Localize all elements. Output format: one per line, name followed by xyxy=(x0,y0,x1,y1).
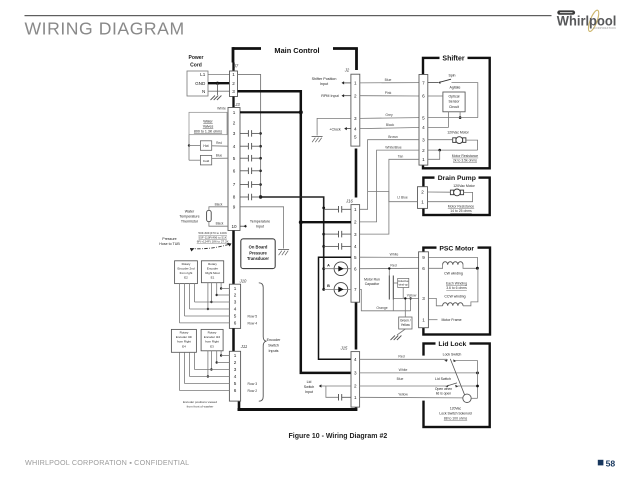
wire Red J16 pin6 to PSC pin6 xyxy=(360,267,419,269)
wire water valve common xyxy=(188,135,190,161)
svg-text:6: 6 xyxy=(354,266,357,271)
temperature input arrow at J3 pin10 xyxy=(240,225,247,227)
svg-text:Water: Water xyxy=(203,120,213,124)
svg-text:Valves: Valves xyxy=(203,125,214,129)
main control right edge segment below J2 xyxy=(355,149,358,198)
wire Tan shifter pin1 corner to J16 pin3 xyxy=(360,159,419,234)
water valves box xyxy=(189,112,227,134)
svg-text:Input: Input xyxy=(320,82,328,86)
wire Cold to J3 pin5, label Blue xyxy=(212,157,228,159)
svg-text:CCW winding: CCW winding xyxy=(444,295,465,299)
svg-text:5: 5 xyxy=(422,115,425,120)
wire shifter pin6 to optical sensor xyxy=(428,95,443,97)
junction blue/solenoid rail xyxy=(476,385,479,388)
wire L1 feed (pin8 row) to J16 cap bus xyxy=(261,197,324,289)
wire Yellow J15 pin1 to solenoid xyxy=(360,396,464,399)
svg-text:1: 1 xyxy=(232,72,235,77)
svg-text:7: 7 xyxy=(233,182,236,187)
wire switch common to sensor rail xyxy=(452,83,478,118)
svg-text:Switch: Switch xyxy=(304,385,315,389)
svg-text:from right: from right xyxy=(180,271,193,275)
svg-text:Motor Run: Motor Run xyxy=(364,278,380,282)
svg-text:Motor Resistance: Motor Resistance xyxy=(452,154,478,158)
svg-text:J11: J11 xyxy=(240,344,247,349)
junction cap bus J16 pin3 xyxy=(322,233,325,236)
psc motor outer box xyxy=(423,248,490,335)
wire motor loop to pin1 xyxy=(428,192,473,201)
svg-text:Each Winding: Each Winding xyxy=(446,282,467,286)
svg-text:1: 1 xyxy=(354,81,357,86)
wire L1 to J7 pin1 xyxy=(208,73,230,75)
svg-text:WIRING DIAGRAM: WIRING DIAGRAM xyxy=(25,18,185,38)
wire shifter pin5 row xyxy=(428,117,478,119)
svg-text:Cold: Cold xyxy=(203,159,210,163)
svg-text:White: White xyxy=(217,107,226,111)
svg-text:Blue: Blue xyxy=(216,153,223,157)
wire thick stub from main control top to J7 xyxy=(232,63,234,72)
wire capacitor to orange run xyxy=(392,300,394,311)
rfi capacitor at J3 pin5 xyxy=(240,157,248,159)
svg-text:Input: Input xyxy=(256,224,264,228)
svg-text:E2: E2 xyxy=(184,276,188,280)
svg-text:4: 4 xyxy=(234,374,237,379)
wire green/yellow to ground xyxy=(397,329,405,335)
rotary encoder E3 box xyxy=(201,329,223,350)
svg-text:2k to 3.5k ohms: 2k to 3.5k ohms xyxy=(453,158,477,162)
wires encoder E1 to J10 rows 1-4 xyxy=(220,283,222,289)
junction cap bus J16 pin4 xyxy=(322,245,325,248)
svg-text:58: 58 xyxy=(606,458,616,468)
svg-text:Motor Frame: Motor Frame xyxy=(441,318,461,322)
valve Hot box xyxy=(200,141,211,151)
optical sensor stub to pin5 wire xyxy=(459,112,461,118)
svg-text:Figure 10 - Wiring Diagram #2: Figure 10 - Wiring Diagram #2 xyxy=(289,433,388,440)
connector J11 xyxy=(229,351,240,401)
svg-text:Lock Switch: Lock Switch xyxy=(443,352,462,356)
rfi capacitor at J16 pin4 xyxy=(324,245,339,247)
svg-text:6F(+124F) 186 to 27.2K: 6F(+124F) 186 to 27.2K xyxy=(197,240,229,244)
wire thick stub J3 to J10 xyxy=(232,231,235,285)
svg-text:A: A xyxy=(327,263,330,267)
svg-text:3: 3 xyxy=(422,137,425,142)
svg-text:Red: Red xyxy=(216,141,222,145)
svg-text:Rotary: Rotary xyxy=(208,331,217,335)
rotary encoder E2 box xyxy=(175,261,198,284)
main control bottom-left corner stub to J11 xyxy=(238,401,241,411)
lid lock outer box xyxy=(424,344,490,428)
svg-text:CW winding: CW winding xyxy=(444,272,463,276)
svg-text:Sensor: Sensor xyxy=(448,100,460,104)
svg-text:1: 1 xyxy=(421,199,424,204)
wire inductive box to capacitor xyxy=(393,282,397,284)
svg-text:800 to 1.3K ohms: 800 to 1.3K ohms xyxy=(194,130,222,134)
chassis ground below green/yellow xyxy=(391,336,396,341)
svg-text:9: 9 xyxy=(233,205,236,210)
svg-text:Row 3: Row 3 xyxy=(248,382,258,386)
svg-text:4: 4 xyxy=(354,357,357,362)
svg-text:Pressure: Pressure xyxy=(249,250,267,255)
wire thick trunk to J16 pin2 xyxy=(301,221,351,223)
svg-text:Power: Power xyxy=(188,55,203,61)
svg-text:4: 4 xyxy=(234,307,237,312)
svg-text:120Vac Motor: 120Vac Motor xyxy=(453,184,475,188)
wire Blue J15 pin2 to lid switch xyxy=(360,385,446,387)
pressure hose dash-dot leader xyxy=(190,244,232,249)
wire J2 pin4 Black to shifter pin4 xyxy=(360,128,419,129)
svg-text:3: 3 xyxy=(422,296,425,301)
power cord box xyxy=(187,71,208,96)
svg-text:Encoder 4th: Encoder 4th xyxy=(176,335,193,339)
psc connector xyxy=(419,252,429,328)
wires encoder E4 to J11 rows 3-6 xyxy=(194,352,196,369)
svg-text:7: 7 xyxy=(422,80,425,85)
svg-text:J7: J7 xyxy=(233,64,239,69)
lock solenoid xyxy=(463,394,471,402)
speed sensor A xyxy=(334,262,348,276)
wire White J16 pin5 to PSC pin9 xyxy=(360,256,419,258)
junction white/solenoid rail xyxy=(476,372,479,375)
wire motor to pin2 row xyxy=(466,140,478,150)
svg-text:14 to 25 ohms: 14 to 25 ohms xyxy=(450,209,472,213)
encoder switch inputs brace xyxy=(259,283,267,401)
svg-text:5: 5 xyxy=(354,255,357,260)
wire lock switch to solenoid rail xyxy=(456,361,478,399)
connector J10 xyxy=(229,284,240,328)
svg-text:J10: J10 xyxy=(239,279,247,284)
svg-text:PSC Motor: PSC Motor xyxy=(439,245,474,252)
wire J7 pin1 (L1 bus) right and down xyxy=(238,74,261,197)
svg-text:2: 2 xyxy=(354,220,357,225)
svg-text:6: 6 xyxy=(422,94,425,99)
svg-text:White: White xyxy=(399,368,408,372)
svg-text:Cord: Cord xyxy=(190,62,202,68)
svg-text:J16: J16 xyxy=(345,198,353,203)
wire common to Cold valve xyxy=(189,159,200,161)
wire J2 pin3 Grey to shifter pin5 xyxy=(360,117,419,120)
drain pump outer box xyxy=(423,178,489,215)
svg-text:wind-up: wind-up xyxy=(399,283,409,287)
speed sensor B xyxy=(334,283,348,297)
svg-text:4: 4 xyxy=(354,244,357,249)
shifter outer box xyxy=(423,58,490,168)
spin/agitate selector switch xyxy=(428,82,438,84)
shifter 120Vac motor symbol xyxy=(456,137,463,144)
svg-text:6: 6 xyxy=(422,266,425,271)
svg-text:Blue: Blue xyxy=(397,377,404,381)
lid lock left edge wire gap xyxy=(421,356,426,401)
wire psc pin1 motor frame xyxy=(428,319,437,321)
svg-text:Encoder 2nd: Encoder 2nd xyxy=(177,267,194,271)
wire White J15 pin3 to solenoid rail xyxy=(360,372,478,374)
svg-text:3: 3 xyxy=(234,300,237,305)
wire J7 pin3 neutral trunk (thick) to J15 pin3 xyxy=(238,91,352,373)
rotary encoder E1 box xyxy=(201,261,223,283)
svg-text:Capacitor: Capacitor xyxy=(365,282,380,286)
wire J16 pin5 to J15 pin4 xyxy=(319,257,352,359)
wire Red J15 pin4 to lock switch xyxy=(360,358,447,360)
svg-text:2: 2 xyxy=(422,148,425,153)
main control top-left corner bracket xyxy=(233,47,261,50)
svg-text:6: 6 xyxy=(234,321,237,326)
wire thermistor to J3 pin9, label Black xyxy=(209,207,228,211)
rfi capacitor at J16 pin1 xyxy=(324,208,339,210)
svg-text:from front of washer: from front of washer xyxy=(187,405,214,409)
wire common to Hot valve xyxy=(189,145,200,147)
main control right edge segment below J16 xyxy=(355,302,358,349)
Whirlpool logo gold swoosh xyxy=(586,9,600,33)
svg-text:5: 5 xyxy=(234,381,237,386)
shield ground symbol xyxy=(278,249,289,251)
svg-text:2: 2 xyxy=(421,190,424,195)
optical sensor stub to pin4 wire xyxy=(447,112,449,128)
wire pin2 to pin1 tie xyxy=(428,150,440,159)
svg-text:Inductive: Inductive xyxy=(398,279,409,283)
svg-text:Brown: Brown xyxy=(388,135,398,139)
svg-text:2: 2 xyxy=(234,360,237,365)
svg-text:1: 1 xyxy=(233,110,236,115)
top rule line xyxy=(25,15,552,16)
svg-text:1: 1 xyxy=(422,157,425,162)
svg-text:Rotary: Rotary xyxy=(182,262,191,266)
svg-text:Rotary: Rotary xyxy=(180,331,189,335)
svg-text:J2: J2 xyxy=(344,68,350,73)
svg-text:Yellow: Yellow xyxy=(401,323,411,327)
svg-text:+Clock: +Clock xyxy=(329,128,341,132)
svg-text:1: 1 xyxy=(234,286,237,291)
rotary encoder E4 box xyxy=(171,329,196,352)
svg-text:Row 2: Row 2 xyxy=(248,389,258,393)
svg-text:RPM Input: RPM Input xyxy=(321,94,338,98)
junction on GND wire xyxy=(216,82,219,85)
svg-text:10: 10 xyxy=(231,224,237,229)
svg-text:Main Control: Main Control xyxy=(274,46,319,55)
ccw winding xyxy=(428,298,442,305)
svg-text:Lid Switch: Lid Switch xyxy=(435,377,451,381)
wire yellow node to green/yellow box xyxy=(404,298,406,317)
svg-text:from Right: from Right xyxy=(205,340,219,344)
wire J2 pin2 Pink to shifter pin6 xyxy=(360,95,419,97)
svg-text:Hose to TUB: Hose to TUB xyxy=(159,242,180,246)
svg-text:lid is open: lid is open xyxy=(436,392,451,396)
green/yellow box xyxy=(399,317,412,329)
L1 bus junction dots at J3 rows xyxy=(259,132,262,135)
lock switch arm / solenoid actuator link xyxy=(450,359,464,395)
svg-text:8: 8 xyxy=(233,195,236,200)
svg-text:Agitate: Agitate xyxy=(450,85,461,89)
svg-text:N: N xyxy=(202,89,205,94)
svg-text:Lid Lock: Lid Lock xyxy=(438,341,466,348)
wire N to J7 pin3 xyxy=(208,90,230,92)
motor run capacitor plates xyxy=(388,276,390,300)
svg-text:2: 2 xyxy=(233,121,236,126)
wire shifter pin4 to optical stub xyxy=(428,127,449,129)
svg-text:Switch: Switch xyxy=(268,344,279,348)
svg-text:Lid: Lid xyxy=(307,380,312,384)
svg-text:Hot: Hot xyxy=(203,144,208,148)
svg-text:Row 4: Row 4 xyxy=(248,322,258,326)
svg-text:Water: Water xyxy=(185,210,195,214)
svg-text:Encoder: Encoder xyxy=(207,267,218,271)
svg-text:Encoder positions viewed: Encoder positions viewed xyxy=(183,400,217,404)
svg-text:9: 9 xyxy=(422,255,425,260)
svg-text:Pressure: Pressure xyxy=(162,237,176,241)
svg-text:E1: E1 xyxy=(211,276,215,280)
lid switch xyxy=(445,385,449,388)
wire White/Blue shifter pin2 corner to J16 pin2 xyxy=(360,150,419,222)
wire shifter pin3 to motor xyxy=(428,139,453,141)
wire thermistor to J3 pin10, label Black xyxy=(209,222,228,227)
svg-text:2: 2 xyxy=(234,293,237,298)
svg-text:7: 7 xyxy=(354,287,357,292)
cw winding xyxy=(428,265,442,269)
main control top-right corner bracket xyxy=(333,47,358,50)
optical sensor circuit box xyxy=(443,92,465,112)
svg-text:Drain Pump: Drain Pump xyxy=(438,175,476,182)
svg-text:Black: Black xyxy=(215,202,223,206)
wire J2 pin1 Blue to shifter pin7 xyxy=(360,82,419,84)
wires encoder E2 to J10 rows 3-6 xyxy=(194,284,196,302)
svg-text:4: 4 xyxy=(422,125,425,130)
svg-text:120Vac: 120Vac xyxy=(450,406,462,410)
svg-text:Yellow: Yellow xyxy=(407,294,417,298)
svg-text:On Board: On Board xyxy=(249,245,268,250)
drain pump motor symbol xyxy=(454,189,461,196)
svg-text:Optical: Optical xyxy=(449,94,460,98)
wire GND to J7 pin2 (thick) xyxy=(208,82,230,84)
svg-text:6: 6 xyxy=(234,388,237,393)
svg-text:Temperature: Temperature xyxy=(179,215,199,219)
main control bottom edge xyxy=(238,408,358,411)
svg-text:Temperature: Temperature xyxy=(250,220,270,224)
inductive windup box xyxy=(398,278,409,287)
on board pressure transducer box xyxy=(241,239,275,269)
svg-text:Green /: Green / xyxy=(400,319,411,323)
svg-text:Pink: Pink xyxy=(385,91,392,95)
svg-text:4: 4 xyxy=(233,144,236,149)
svg-text:Lock Switch Solenoid: Lock Switch Solenoid xyxy=(439,411,471,415)
svg-text:E3: E3 xyxy=(210,344,214,348)
wire J2 pin3 to ground xyxy=(317,118,351,135)
wire Lt Blue drain pump pin1 to Brown node xyxy=(368,192,418,202)
svg-text:6: 6 xyxy=(233,169,236,174)
svg-text:Lt Blue: Lt Blue xyxy=(397,196,408,200)
svg-text:3.6 to 6 ohms: 3.6 to 6 ohms xyxy=(446,286,467,290)
svg-text:3: 3 xyxy=(354,116,357,121)
svg-text:Input: Input xyxy=(305,390,313,394)
svg-text:Black: Black xyxy=(216,222,224,226)
lock switch xyxy=(444,359,448,362)
svg-text:5: 5 xyxy=(234,314,237,319)
svg-text:Transducer: Transducer xyxy=(247,256,269,261)
drain pump connector xyxy=(418,187,428,209)
svg-text:L1: L1 xyxy=(200,72,206,77)
svg-text:Blue: Blue xyxy=(385,78,392,82)
svg-text:3: 3 xyxy=(354,371,357,376)
junction neutral trunk / J16 pin2 xyxy=(299,220,303,224)
connector J2 xyxy=(351,74,360,146)
rfi capacitor at J15 pin1 xyxy=(321,385,326,387)
svg-text:Shifter: Shifter xyxy=(442,55,464,62)
wire thick stub J10 to J11 xyxy=(232,328,235,351)
wire J3 pin9 to shield ground xyxy=(240,207,284,249)
svg-text:Encoder: Encoder xyxy=(267,338,282,342)
wire Hot to J3 pin4, label Red xyxy=(212,145,228,147)
svg-text:4: 4 xyxy=(354,126,357,131)
chassis ground symbol below power cord xyxy=(211,96,216,101)
svg-text:2: 2 xyxy=(232,81,235,86)
svg-text:5: 5 xyxy=(233,156,236,161)
svg-text:from Right: from Right xyxy=(177,340,191,344)
svg-text:Tan: Tan xyxy=(398,154,404,158)
wire J16 pin7 to Orange run xyxy=(360,289,411,310)
thermistor symbol xyxy=(207,210,212,221)
svg-text:1: 1 xyxy=(234,353,237,358)
svg-text:Grey: Grey xyxy=(385,113,393,117)
wires encoder E3 to J11 rows 1-4 xyxy=(220,351,222,356)
svg-text:Black: Black xyxy=(386,123,395,127)
svg-text:Circuit: Circuit xyxy=(449,105,459,109)
junction winding rail xyxy=(476,267,479,270)
svg-text:CORPORATION: CORPORATION xyxy=(593,26,616,30)
wire psc pin9 to winding rail xyxy=(428,257,477,268)
svg-text:3: 3 xyxy=(233,131,236,136)
wire drain pump pin2 to motor xyxy=(428,191,451,193)
svg-text:Yellow: Yellow xyxy=(398,393,408,397)
connector J7 xyxy=(230,71,238,97)
svg-text:Open when: Open when xyxy=(435,387,452,391)
ground symbol at J2 pin3 xyxy=(312,136,323,138)
shifter connector xyxy=(419,75,428,166)
svg-text:2: 2 xyxy=(354,93,357,98)
valve Cold box xyxy=(200,155,211,165)
svg-text:Rotary: Rotary xyxy=(208,262,217,266)
svg-text:Red: Red xyxy=(390,264,396,268)
svg-text:Encoder 3rd: Encoder 3rd xyxy=(204,335,221,339)
svg-text:B: B xyxy=(327,284,330,288)
svg-text:GND: GND xyxy=(195,81,206,86)
svg-text:Spin: Spin xyxy=(448,74,455,78)
rfi capacitor at J3 pin4 xyxy=(240,145,248,147)
svg-text:120Vac Motor: 120Vac Motor xyxy=(447,130,469,134)
junction cap bus sensor B xyxy=(322,288,325,291)
svg-text:1: 1 xyxy=(422,317,425,322)
rfi capacitor at J3 pin3 xyxy=(240,132,248,134)
wire red tap to capacitor xyxy=(388,269,390,276)
wire lid switch to solenoid rail xyxy=(458,385,478,387)
junction pin2/pin1 tie xyxy=(438,149,441,152)
connector J15 xyxy=(351,352,360,408)
rfi capacitor at J3 pin8 xyxy=(240,196,248,198)
svg-text:88 to 100 ohms: 88 to 100 ohms xyxy=(444,416,468,420)
svg-text:2: 2 xyxy=(354,384,357,389)
junction cap bus sensor A xyxy=(322,267,325,270)
svg-text:White: White xyxy=(390,252,399,256)
rfi capacitor at J3 pin7 xyxy=(240,184,248,186)
Whirlpool logo pill xyxy=(557,10,575,14)
svg-text:Orange: Orange xyxy=(376,306,387,310)
connector J3 xyxy=(228,108,240,231)
svg-text:3: 3 xyxy=(234,367,237,372)
wire Brown shifter pin3 corner to J16 pin1 xyxy=(360,140,419,210)
wire inductive box to yellow wire xyxy=(402,288,404,299)
row wires 1-2 to connector J11 xyxy=(221,355,229,357)
svg-text:WHIRLPOOL CORPORATION ▪ CONFID: WHIRLPOOL CORPORATION ▪ CONFIDENTIAL xyxy=(25,458,189,467)
wire orange run up to yellow node xyxy=(410,298,412,310)
svg-text:Inputs: Inputs xyxy=(268,349,278,353)
junction L1 bus / pin8 row xyxy=(259,195,262,198)
svg-text:1: 1 xyxy=(354,395,357,400)
main control bottom-right corner xyxy=(355,407,358,411)
